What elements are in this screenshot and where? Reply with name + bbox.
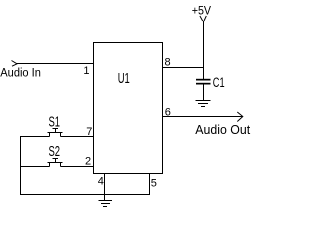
wire +5V vertical xyxy=(203,21,205,80)
power +5V arrow xyxy=(200,16,206,21)
wire pin7 left xyxy=(20,136,50,138)
wire pin8 xyxy=(163,67,204,69)
svg-text:C1: C1 xyxy=(213,74,225,91)
svg-text:4: 4 xyxy=(98,176,104,188)
svg-text:Audio Out: Audio Out xyxy=(195,123,250,137)
node Audio In arrow xyxy=(12,61,18,67)
wire pin7 right xyxy=(61,136,94,138)
wire bottom rail xyxy=(20,194,150,196)
svg-text:7: 7 xyxy=(86,126,92,138)
svg-text:Audio In: Audio In xyxy=(0,66,41,80)
wire pin2 right xyxy=(61,166,94,168)
svg-text:6: 6 xyxy=(165,107,171,119)
switch S2 xyxy=(48,159,63,167)
IC U1 body xyxy=(94,43,163,174)
node Audio Out arrow xyxy=(237,112,243,122)
svg-text:8: 8 xyxy=(165,57,171,69)
wire pin5 vertical xyxy=(149,174,151,196)
ground (under C1) xyxy=(196,101,211,107)
ground (bottom) xyxy=(99,195,113,207)
svg-text:+5V: +5V xyxy=(192,5,212,18)
switch S1 xyxy=(48,129,63,137)
wire pin6 xyxy=(163,116,243,118)
svg-text:5: 5 xyxy=(151,178,157,190)
svg-text:1: 1 xyxy=(83,65,89,77)
capacitor C1 xyxy=(196,79,211,101)
wire pin1 xyxy=(17,63,94,65)
svg-text:U1: U1 xyxy=(118,70,130,87)
svg-text:2: 2 xyxy=(85,156,91,168)
wire pin2 left xyxy=(20,166,50,168)
wire pin4 vertical xyxy=(104,174,106,195)
svg-text:S1: S1 xyxy=(49,113,61,130)
svg-text:S2: S2 xyxy=(49,143,61,160)
wire left rail xyxy=(20,136,22,195)
